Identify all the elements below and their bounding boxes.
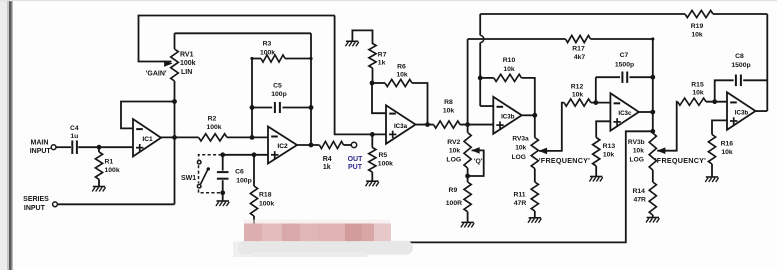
svg-text:4k7: 4k7 bbox=[574, 54, 586, 61]
node C7 right bbox=[650, 75, 655, 80]
svg-text:C7: C7 bbox=[620, 52, 629, 59]
ground under R9 bbox=[461, 221, 473, 223]
svg-text:RV2: RV2 bbox=[447, 139, 460, 146]
wire R5 column bbox=[371, 134, 373, 147]
svg-text:RV1: RV1 bbox=[180, 52, 194, 59]
wire R3/C5 left rail bbox=[251, 59, 253, 138]
svg-text:10k: 10k bbox=[572, 92, 584, 99]
watermark pink fringe bbox=[243, 220, 390, 224]
resistor R11 bbox=[531, 182, 538, 211]
wire C5 row bbox=[252, 107, 272, 109]
node R3 right bbox=[309, 57, 312, 60]
svg-text:LIN: LIN bbox=[181, 69, 192, 76]
resistor R3 bbox=[261, 55, 285, 62]
wire R4 to output terminal bbox=[344, 144, 352, 146]
svg-text:R11: R11 bbox=[513, 191, 525, 198]
svg-text:LOG: LOG bbox=[512, 154, 526, 161]
capacitor C8 bbox=[735, 75, 737, 87]
wire R7 bottom to R6 bbox=[372, 68, 374, 83]
wire R16 stem bbox=[711, 164, 713, 177]
node IC3c minus / C7 left bbox=[593, 100, 598, 105]
op-amp IC1 bbox=[133, 119, 161, 157]
svg-text:100p: 100p bbox=[271, 91, 287, 98]
wire C8 right to rail bbox=[743, 79, 767, 81]
resistor R13 bbox=[593, 138, 600, 167]
watermark grey bar bbox=[233, 242, 353, 258]
svg-text:10k: 10k bbox=[515, 145, 526, 152]
node IC3c output bbox=[650, 110, 655, 115]
wire IC3b + to R16 bbox=[712, 120, 727, 134]
svg-text:IC3b: IC3b bbox=[501, 114, 515, 121]
svg-text:LOG: LOG bbox=[446, 156, 461, 163]
node R18 top bbox=[252, 152, 257, 157]
svg-text:C4: C4 bbox=[70, 125, 79, 132]
svg-text:10k: 10k bbox=[396, 72, 408, 79]
wire R15 right to IC3b minus bbox=[706, 101, 727, 103]
wire rail C drop with hop over rail D bbox=[479, 14, 481, 35]
svg-text:PUT: PUT bbox=[348, 164, 363, 171]
wire rail D left drop to + node bbox=[467, 39, 469, 125]
wire R12 right to IC3c minus bbox=[591, 102, 611, 104]
svg-text:R15: R15 bbox=[691, 81, 704, 88]
wire gain rail down to IC3a + node bbox=[335, 16, 386, 135]
node C6 top bbox=[220, 152, 225, 157]
svg-text:R3: R3 bbox=[263, 40, 272, 47]
ground under R14 bbox=[647, 217, 659, 219]
svg-text:100k: 100k bbox=[259, 200, 274, 207]
svg-text:R13: R13 bbox=[603, 143, 616, 150]
ground under R1 bbox=[93, 186, 105, 188]
node C8 left bbox=[712, 99, 717, 104]
resistor R15 bbox=[678, 98, 707, 105]
node IC3b output / RV3a top bbox=[532, 113, 537, 118]
wire R1 stem bbox=[98, 147, 100, 152]
ground under R13 bbox=[590, 176, 602, 178]
wire bottom feedback run bbox=[254, 131, 653, 242]
svg-text:100k: 100k bbox=[260, 50, 275, 57]
switch SW1 contacts and lever bbox=[197, 160, 201, 164]
wire RV1 column bbox=[174, 33, 176, 49]
svg-text:SW1: SW1 bbox=[181, 175, 196, 182]
svg-text:RV3b: RV3b bbox=[628, 139, 645, 146]
resistor R4 bbox=[319, 141, 343, 148]
svg-text:R4: R4 bbox=[323, 156, 332, 163]
svg-text:10k: 10k bbox=[633, 148, 644, 155]
main input terminal bbox=[51, 145, 56, 150]
wire R6 right to IC3a output bbox=[412, 83, 428, 125]
svg-text:MAIN: MAIN bbox=[31, 139, 49, 146]
node R10 left bbox=[478, 76, 483, 81]
wire IC3b output stub bbox=[522, 114, 535, 116]
node RV3b top bbox=[650, 129, 655, 134]
watermark pink bar bbox=[244, 224, 262, 242]
node RV2 bottom bbox=[465, 174, 470, 179]
left page-edge grey strip bbox=[0, 0, 7, 270]
svg-text:C6: C6 bbox=[235, 168, 244, 175]
svg-text:R19: R19 bbox=[691, 23, 704, 30]
wire R13 stem bbox=[595, 166, 597, 177]
op-amp IC3b bbox=[493, 97, 521, 134]
svg-text:100k: 100k bbox=[378, 161, 393, 168]
resistor R19 bbox=[685, 10, 713, 17]
wire RV3b wiper to R15 bbox=[657, 102, 677, 151]
switch SW1 dashed connections bbox=[199, 155, 222, 193]
svg-text:100k: 100k bbox=[105, 167, 120, 174]
wire rail C (R19) bbox=[480, 13, 685, 15]
svg-text:LOG: LOG bbox=[630, 157, 644, 164]
gain wiper arrow bbox=[164, 60, 173, 67]
resistor R17 bbox=[566, 35, 591, 42]
svg-text:1u: 1u bbox=[70, 133, 78, 140]
svg-text:10k: 10k bbox=[449, 147, 461, 154]
svg-text:SERIES: SERIES bbox=[23, 196, 49, 203]
wire R8 to IC3b + node bbox=[460, 124, 493, 126]
svg-text:C5: C5 bbox=[273, 82, 282, 89]
node C6 bottom bbox=[220, 190, 225, 195]
svg-text:47R: 47R bbox=[633, 196, 646, 203]
wire RV3a wiper to R12 bbox=[539, 103, 564, 151]
wire IC3c output stub bbox=[639, 111, 653, 113]
wire RV3a bottom to R11 bbox=[534, 169, 536, 183]
svg-text:10k: 10k bbox=[503, 66, 515, 73]
svg-text:OUT: OUT bbox=[348, 156, 364, 163]
node R1/input junction bbox=[97, 145, 102, 150]
node RV1 bottom / feedback tee bbox=[172, 99, 177, 104]
svg-text:R17: R17 bbox=[572, 46, 585, 53]
capacitor C7 bbox=[621, 72, 623, 83]
wire R18 column bbox=[253, 155, 255, 186]
op-amp IC3b (right) bbox=[727, 92, 756, 130]
svg-text:'FREQUENCY': 'FREQUENCY' bbox=[655, 156, 706, 165]
resistor R1 bbox=[95, 152, 102, 179]
capacitor C4 bbox=[71, 140, 73, 154]
wire R10 right to output bbox=[522, 78, 535, 115]
wire C6 column bbox=[222, 155, 224, 171]
svg-text:RV3a: RV3a bbox=[512, 136, 529, 143]
resistor R12 bbox=[564, 99, 591, 106]
svg-text:C8: C8 bbox=[735, 53, 744, 60]
wire right rail down bbox=[766, 14, 768, 111]
svg-text:R7: R7 bbox=[378, 51, 387, 58]
op-amp IC3a bbox=[386, 105, 416, 144]
svg-text:IC3b: IC3b bbox=[735, 109, 749, 116]
svg-text:1k: 1k bbox=[323, 164, 331, 171]
wire rail D (R17) bbox=[468, 38, 566, 40]
wire RV3b column to R14 bbox=[652, 170, 654, 182]
resistor R14 bbox=[649, 182, 656, 215]
wire RV2 column bbox=[467, 125, 469, 133]
svg-text:10k: 10k bbox=[443, 107, 455, 114]
svg-text:IC3a: IC3a bbox=[394, 123, 408, 130]
wire down to RV3a bbox=[534, 115, 536, 137]
svg-text:1k: 1k bbox=[378, 60, 386, 67]
svg-text:100p: 100p bbox=[236, 177, 252, 184]
wire R3 row bbox=[252, 58, 261, 60]
node R8/RV2 junction bbox=[465, 122, 470, 127]
node IC1 output junction bbox=[172, 135, 177, 140]
node IC2 minus bbox=[250, 135, 255, 140]
resistor R10 bbox=[494, 74, 522, 81]
svg-text:R8: R8 bbox=[444, 99, 453, 106]
wire R10 left stub bbox=[480, 77, 494, 79]
ground under C6 bbox=[217, 200, 229, 202]
resistor R2 bbox=[199, 134, 227, 141]
ground at R7 top bbox=[346, 40, 358, 42]
svg-text:1500p: 1500p bbox=[615, 61, 634, 68]
wire R3/C5 right rail bbox=[310, 33, 312, 145]
resistor R9 bbox=[464, 182, 471, 212]
svg-text:R1: R1 bbox=[105, 159, 114, 166]
output terminal bbox=[351, 142, 356, 147]
node IC2 output bbox=[309, 143, 314, 148]
wire IC1 feedback loop bbox=[121, 102, 175, 129]
svg-text:R2: R2 bbox=[208, 115, 217, 122]
wire IC3c + to R13 bbox=[596, 121, 610, 137]
wire IC3a minus riser bbox=[372, 83, 386, 113]
resistor R18 bbox=[250, 186, 257, 216]
wire outer top rail (gain) bbox=[139, 16, 335, 62]
svg-text:10k: 10k bbox=[721, 149, 733, 156]
wire RV2 wiper 'Q' loop bbox=[468, 150, 484, 176]
wire inner top rail bbox=[175, 32, 312, 34]
potentiometer RV2 bbox=[464, 133, 471, 169]
op-amp IC3c bbox=[610, 93, 638, 131]
node C5 left bbox=[250, 105, 255, 110]
svg-text:100k: 100k bbox=[206, 124, 221, 131]
svg-text:IC1: IC1 bbox=[142, 136, 153, 143]
svg-text:R9: R9 bbox=[449, 187, 458, 194]
ground under R16 bbox=[706, 176, 718, 178]
svg-text:10k: 10k bbox=[603, 152, 615, 159]
svg-text:'GAIN': 'GAIN' bbox=[146, 71, 167, 78]
svg-text:INPUT: INPUT bbox=[30, 148, 52, 155]
svg-text:R10: R10 bbox=[503, 57, 516, 64]
svg-text:1500p: 1500p bbox=[731, 62, 750, 69]
wire C4 to IC1 + input bbox=[78, 146, 133, 148]
node IC3a output bbox=[425, 122, 430, 127]
wire C8 left riser bbox=[715, 80, 734, 101]
capacitor C5 bbox=[274, 102, 276, 113]
potentiometer RV3b bbox=[649, 133, 656, 170]
resistor R6 bbox=[385, 79, 412, 86]
node R3 left bbox=[250, 57, 253, 60]
wire IC3b output stub bbox=[756, 110, 768, 112]
potentiometer RV1 bbox=[171, 49, 179, 81]
capacitor C6 bbox=[217, 171, 229, 173]
svg-text:R12: R12 bbox=[571, 83, 584, 90]
wire C7 right to rail bbox=[630, 76, 653, 78]
resistor R8 bbox=[434, 121, 461, 128]
svg-text:10k: 10k bbox=[691, 32, 703, 39]
svg-text:IC2: IC2 bbox=[277, 143, 288, 150]
wire series input riser bbox=[174, 137, 176, 204]
ground under R5 bbox=[366, 180, 378, 182]
svg-text:R6: R6 bbox=[397, 63, 406, 70]
svg-text:R14: R14 bbox=[632, 188, 645, 195]
svg-text:'Q': 'Q' bbox=[474, 158, 483, 165]
node C5 right bbox=[309, 105, 314, 110]
svg-text:'FREQUENCY': 'FREQUENCY' bbox=[539, 156, 590, 165]
wire R7 hook to ground bbox=[352, 30, 372, 44]
svg-text:R18: R18 bbox=[259, 192, 272, 199]
wire IC3c output rail bbox=[652, 39, 654, 131]
series input terminal bbox=[53, 202, 58, 207]
svg-text:47R: 47R bbox=[514, 200, 527, 207]
resistor R5 bbox=[369, 148, 376, 173]
potentiometer RV3a bbox=[531, 138, 538, 169]
svg-text:INPUT: INPUT bbox=[24, 205, 46, 212]
wire main input to C4 bbox=[56, 146, 71, 148]
node R5 top bbox=[370, 132, 375, 137]
node R6/R7 junction bbox=[370, 81, 375, 86]
wire C7 left riser bbox=[595, 77, 597, 102]
op-amp IC2 bbox=[268, 127, 297, 164]
wire IC3a output row bbox=[416, 124, 434, 126]
resistor R16 bbox=[708, 135, 715, 165]
node rail D right corner bbox=[651, 37, 654, 40]
resistor R7 bbox=[369, 44, 376, 69]
svg-text:IC3c: IC3c bbox=[618, 110, 632, 117]
svg-text:10k: 10k bbox=[692, 90, 704, 97]
wire IC2 output to R4 bbox=[297, 144, 319, 146]
svg-text:100k: 100k bbox=[180, 60, 196, 67]
svg-text:100R: 100R bbox=[446, 200, 462, 207]
svg-text:R5: R5 bbox=[379, 152, 388, 159]
svg-text:R16: R16 bbox=[721, 140, 734, 147]
ground under R11 bbox=[529, 217, 541, 219]
wire IC1 output row bbox=[161, 136, 199, 138]
wire IC2 + input row bbox=[221, 154, 268, 156]
